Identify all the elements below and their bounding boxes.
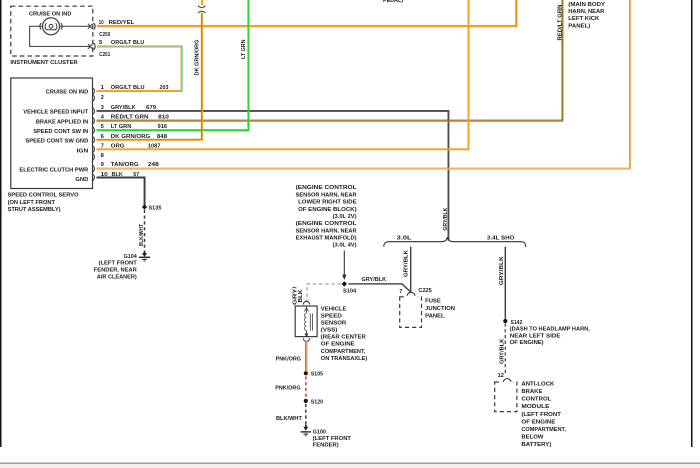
svg-text:(3.0L 4V): (3.0L 4V)	[333, 243, 357, 249]
wire BLK pin10	[97, 177, 146, 179]
servo pin 5 arc	[93, 127, 95, 134]
vehicle speed sensor box	[295, 306, 317, 337]
svg-text:S142: S142	[511, 320, 523, 326]
svg-text:(LEFT FRONT: (LEFT FRONT	[99, 261, 138, 267]
wire RED/YEL vertical riser	[516, 0, 517, 26]
svg-text:FENDER, NEAR: FENDER, NEAR	[94, 268, 138, 274]
wire GRY/BLK dashed S142 to ABS	[504, 323, 506, 375]
svg-text:GRY/BLK: GRY/BLK	[111, 105, 136, 111]
servo pin 2 arc	[93, 95, 95, 102]
svg-text:ON TRANSAXLE): ON TRANSAXLE)	[321, 356, 368, 362]
svg-text:SPEED: SPEED	[321, 314, 342, 320]
svg-text:BLK/WHT: BLK/WHT	[139, 224, 145, 247]
svg-text:12: 12	[498, 373, 504, 379]
svg-text:BLK/WHT: BLK/WHT	[276, 416, 302, 422]
svg-text:(DASH TO HEADLAMP HARN,: (DASH TO HEADLAMP HARN,	[510, 327, 590, 333]
svg-text:GRY/BLK: GRY/BLK	[443, 207, 449, 231]
white gap under C225 arc	[404, 296, 418, 298]
svg-text:LT GRN: LT GRN	[241, 40, 247, 60]
arrow to S104	[343, 251, 345, 276]
svg-text:FENDER): FENDER)	[313, 443, 339, 449]
servo pin 7 arc	[93, 146, 95, 153]
svg-text:(VSS): (VSS)	[321, 328, 338, 334]
svg-text:PNK/ORG: PNK/ORG	[276, 357, 302, 363]
svg-text:BELOW: BELOW	[521, 435, 544, 441]
svg-text:5: 5	[99, 40, 103, 46]
connector C225 arc	[407, 292, 415, 295]
wire RED/LT GRN pin4	[97, 120, 563, 121]
svg-text:BRAKE APPLIED IN: BRAKE APPLIED IN	[36, 120, 88, 126]
svg-text:SENSOR: SENSOR	[321, 321, 347, 327]
wire PNK/ORG dashed	[305, 376, 307, 398]
svg-text:BRAKE: BRAKE	[521, 389, 542, 395]
svg-text:GND: GND	[75, 177, 88, 183]
svg-text:(ENGINE CONTROL: (ENGINE CONTROL	[296, 185, 358, 191]
svg-text:PNK/ORG: PNK/ORG	[275, 385, 301, 391]
wire GRY/BLK 3.0L branch	[410, 247, 412, 292]
fuse junction panel dashed box	[400, 297, 422, 328]
svg-text:PANEL: PANEL	[425, 313, 445, 319]
svg-text:COMPARTMENT,: COMPARTMENT,	[521, 427, 566, 433]
svg-text:BATTERY): BATTERY)	[521, 442, 551, 448]
servo pin 3 arc	[93, 108, 95, 115]
right sheet border	[691, 0, 693, 447]
lamp CRUISE ON IND	[40, 18, 62, 35]
svg-text:DK GRN/ORG: DK GRN/ORG	[194, 39, 200, 75]
servo pin 6 arc	[93, 137, 95, 144]
svg-text:3.4L SHO: 3.4L SHO	[487, 235, 515, 241]
white gap under pin 12 arc	[501, 381, 513, 383]
connector C251 pin symbol	[88, 44, 93, 49]
instrument cluster dashed box	[11, 6, 93, 56]
svg-text:8: 8	[101, 153, 105, 159]
splice S120	[304, 399, 308, 403]
servo pin 9 arc	[93, 165, 95, 172]
svg-text:RED/YEL: RED/YEL	[109, 20, 135, 26]
svg-text:SPEED CONT SW GND: SPEED CONT SW GND	[25, 139, 88, 145]
wire ORG pin7	[97, 148, 469, 150]
svg-text:SENSOR HARN, NEAR: SENSOR HARN, NEAR	[296, 192, 358, 198]
svg-text:(3.0L 2V): (3.0L 2V)	[333, 214, 357, 220]
svg-text:G100: G100	[313, 429, 326, 435]
svg-text:(LEFT FRONT: (LEFT FRONT	[521, 412, 561, 418]
servo pin 1 arc	[93, 88, 95, 95]
svg-text:OF ENGINE): OF ENGINE)	[510, 340, 544, 346]
svg-text:MODULE: MODULE	[521, 404, 549, 410]
svg-text:OF ENGINE: OF ENGINE	[521, 419, 555, 425]
servo pin 4 arc	[93, 117, 95, 124]
svg-text:PANEL): PANEL)	[568, 24, 590, 30]
ground G100	[301, 425, 311, 437]
wire RED/YEL horizontal	[97, 25, 517, 26]
wire GRY/BLK 3.4L branch	[504, 247, 506, 319]
svg-text:OF ENGINE BLOCK): OF ENGINE BLOCK)	[298, 207, 357, 213]
svg-text:IGN: IGN	[77, 149, 89, 155]
ground G104	[139, 251, 150, 262]
servo pin 10 arc	[93, 174, 95, 181]
wire ORG/LT BLU loop C251 to servo pin 1	[97, 45, 183, 46]
svg-text:ORG/LT BLU: ORG/LT BLU	[111, 40, 144, 46]
scrollbar strip	[0, 464, 700, 468]
wire LT GRN pin5	[97, 129, 249, 131]
svg-text:3.0L: 3.0L	[397, 235, 412, 241]
svg-text:C225: C225	[418, 288, 432, 294]
wire DK GRN/ORG pin6	[97, 139, 203, 140]
scrollbar divider	[0, 462, 700, 464]
svg-text:C251: C251	[99, 52, 111, 58]
svg-text:679: 679	[146, 105, 157, 111]
svg-text:CONTROL: CONTROL	[521, 397, 551, 403]
svg-text:G104: G104	[124, 254, 138, 260]
svg-text:BLK: BLK	[298, 289, 304, 303]
svg-text:GRY/BLK: GRY/BLK	[499, 255, 505, 285]
svg-text:CRUISE ON IND: CRUISE ON IND	[29, 12, 72, 18]
splice S105	[304, 371, 308, 375]
svg-text:248: 248	[148, 162, 160, 168]
svg-text:TAN/ORG: TAN/ORG	[111, 162, 139, 168]
svg-text:S135: S135	[149, 206, 163, 212]
svg-text:GRY/BLK: GRY/BLK	[403, 249, 409, 277]
svg-text:S105: S105	[311, 371, 324, 377]
servo pin 8 arc	[93, 154, 95, 161]
svg-text:LOWER RIGHT SIDE: LOWER RIGHT SIDE	[298, 200, 357, 206]
svg-text:COMPARTMENT,: COMPARTMENT,	[321, 349, 366, 355]
svg-text:C250: C250	[99, 32, 110, 38]
svg-text:CRUISE ON IND: CRUISE ON IND	[46, 90, 89, 96]
svg-text:(ENGINE CONTROL: (ENGINE CONTROL	[296, 221, 358, 227]
svg-text:SPEED CONT SW IN: SPEED CONT SW IN	[33, 129, 88, 135]
svg-text:LEFT KICK: LEFT KICK	[568, 16, 600, 22]
vss bottom connector arc	[303, 338, 309, 341]
svg-text:GRY/BLK: GRY/BLK	[361, 277, 387, 283]
svg-text:AIR CLEANER): AIR CLEANER)	[97, 274, 137, 280]
svg-text:SPEED CONTROL SERVO: SPEED CONTROL SERVO	[8, 193, 79, 199]
wire lamp left loop	[30, 26, 90, 46]
wire GRY/BLK pin3	[97, 110, 449, 112]
svg-text:2: 2	[101, 95, 104, 101]
wire PNK/ORG solid	[305, 341, 306, 371]
svg-text:SENSOR HARN, NEAR: SENSOR HARN, NEAR	[296, 228, 358, 234]
wire lamp right lead	[60, 25, 91, 27]
svg-text:INSTRUMENT CLUSTER: INSTRUMENT CLUSTER	[10, 60, 78, 66]
svg-text:S120: S120	[311, 399, 323, 405]
svg-text:ANTI-LOCK: ANTI-LOCK	[521, 381, 555, 387]
svg-text:RED/LT GRN: RED/LT GRN	[557, 4, 563, 40]
svg-text:203: 203	[160, 85, 170, 91]
vss internal coil symbol	[304, 307, 312, 336]
svg-text:3: 3	[101, 105, 105, 111]
splice S142	[503, 319, 507, 323]
svg-text:(REAR CENTER: (REAR CENTER	[321, 335, 367, 341]
svg-text:STRUT ASSEMBLY): STRUT ASSEMBLY)	[8, 207, 61, 213]
svg-text:7: 7	[399, 289, 402, 295]
svg-text:(ON LEFT FRONT: (ON LEFT FRONT	[8, 200, 56, 206]
svg-text:VEHICLE SPEED INPUT: VEHICLE SPEED INPUT	[23, 110, 88, 116]
wire BLK/WHT dashed to G100	[305, 404, 307, 425]
svg-text:(MAIN BODY: (MAIN BODY	[568, 2, 605, 8]
connector C250 pin symbol	[88, 24, 93, 29]
svg-text:HARN, NEAR: HARN, NEAR	[568, 9, 605, 15]
svg-text:GRY/BLK: GRY/BLK	[499, 338, 505, 364]
svg-text:NEAR LEFT SIDE: NEAR LEFT SIDE	[510, 333, 561, 339]
connector pin 12 arc	[503, 379, 511, 382]
inline connector on DK GRN/ORG at top	[198, 6, 205, 8]
brace engine split	[384, 237, 526, 247]
svg-text:ELECTRIC CLUTCH PWR: ELECTRIC CLUTCH PWR	[19, 167, 89, 173]
splice S135	[142, 204, 147, 209]
svg-text:9: 9	[101, 162, 105, 168]
svg-text:EXHAUST MANIFOLD): EXHAUST MANIFOLD)	[296, 235, 357, 241]
left sheet border	[0, 0, 2, 447]
wire BLK/WHT dashed to G104	[144, 210, 146, 251]
svg-text:ORG/LT BLU: ORG/LT BLU	[111, 85, 145, 91]
vss top connector arc	[303, 301, 309, 304]
svg-text:JUNCTION: JUNCTION	[425, 306, 455, 312]
splice S104	[342, 281, 347, 286]
svg-text:S104: S104	[343, 289, 357, 295]
wire TAN/ORG pin9	[97, 168, 631, 169]
wire ORG stub above connector	[201, 0, 203, 5]
anti-lock brake control module dashed box	[495, 382, 517, 412]
speed control servo box	[11, 78, 93, 189]
svg-text:(LEFT FRONT: (LEFT FRONT	[313, 436, 352, 442]
wire GRY/BLK S104 to C225	[348, 284, 410, 292]
svg-text:VEHICLE: VEHICLE	[321, 306, 347, 312]
svg-text:OF ENGINE: OF ENGINE	[321, 342, 355, 348]
svg-text:FUSE: FUSE	[425, 299, 441, 305]
svg-text:PEDAL): PEDAL)	[383, 0, 403, 4]
wire GRY/BLK dashed S104 to VSS	[307, 284, 341, 301]
svg-text:10: 10	[99, 20, 104, 26]
